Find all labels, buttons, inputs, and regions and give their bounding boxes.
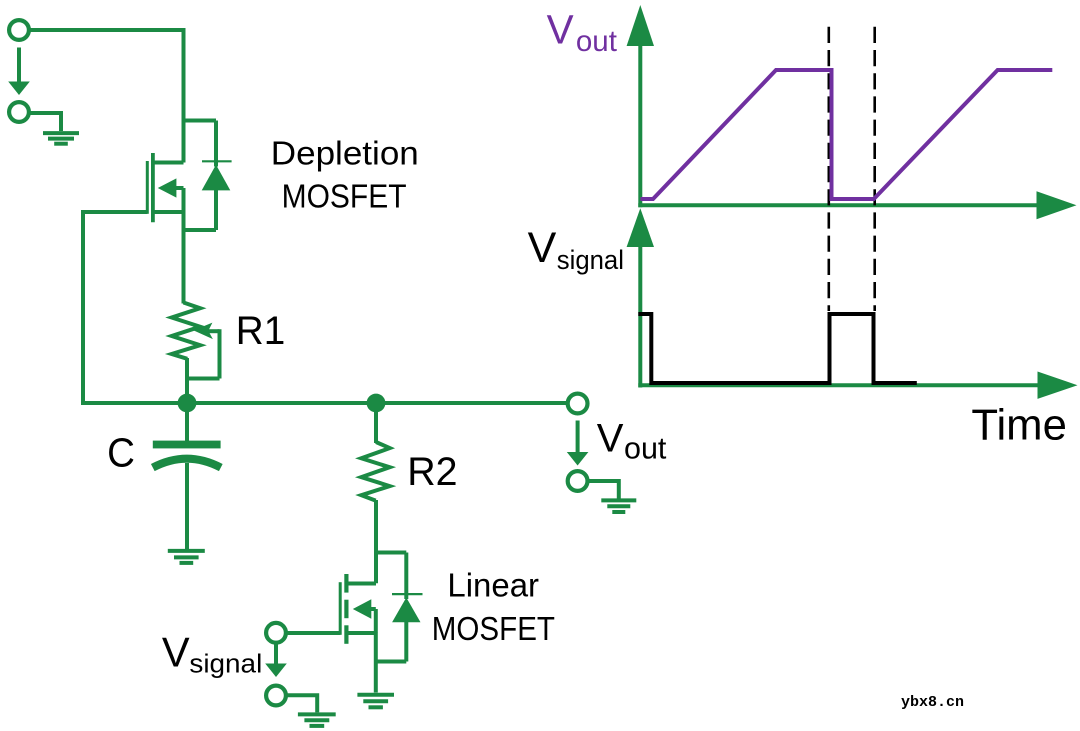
Vsignal lower terminal circle <box>266 686 286 706</box>
label Vsignal (circuit) <box>162 629 262 679</box>
resistor R1 (rheostat) <box>172 303 201 359</box>
chart: Vout horizontal axis <box>638 191 1076 219</box>
svg-text:MOSFET: MOSFET <box>282 177 407 215</box>
ground G4 <box>357 695 394 708</box>
svg-text:out: out <box>624 431 667 465</box>
wire: gate feedback (node A to M1 gate) <box>83 212 147 403</box>
node A junction dot <box>178 394 197 413</box>
wire: R1 bottom to node A <box>185 358 189 403</box>
svg-text:ybx8.cn: ybx8.cn <box>901 694 964 711</box>
svg-text:Linear: Linear <box>447 567 539 604</box>
svg-text:MOSFET: MOSFET <box>432 610 555 647</box>
output terminal circle (lower) <box>568 471 588 491</box>
chart: Vsignal horizontal axis <box>638 372 1077 399</box>
svg-text:V: V <box>528 224 557 272</box>
transistor M1 (depletion MOSFET) <box>147 153 183 230</box>
input lower terminal circle <box>9 102 29 122</box>
label Vout (circuit) <box>597 416 667 465</box>
ground G2 <box>168 551 205 563</box>
ground G5 <box>298 714 336 726</box>
wire: input lower terminal to ground G1 <box>30 113 62 131</box>
wire: capacitor C to ground G2 <box>185 463 189 550</box>
body diode D1 of M1 <box>184 121 232 231</box>
ground G1 <box>43 133 79 144</box>
ground G3 <box>601 500 636 512</box>
node B junction dot <box>367 394 386 413</box>
Vsignal waveform (black pulses) <box>638 314 917 383</box>
wire: Vsignal terminal to M2 gate <box>286 631 340 635</box>
svg-text:R1: R1 <box>236 308 286 353</box>
label Vout (chart, purple) <box>547 7 617 59</box>
chart: Vout vertical axis <box>627 5 654 207</box>
dashed timing line t2 <box>873 27 876 311</box>
capacitor C top plate <box>153 441 221 449</box>
input polarity arrow <box>8 48 30 96</box>
Vsignal polarity arrow <box>265 644 287 677</box>
label Linear MOSFET <box>432 567 555 648</box>
svg-text:V: V <box>547 7 574 53</box>
body diode D2 of M2 <box>376 553 423 662</box>
wire: node A horizontal rail <box>81 401 567 405</box>
wire: node A to capacitor C <box>185 403 189 441</box>
svg-text:V: V <box>597 416 624 460</box>
svg-text:signal: signal <box>189 649 262 678</box>
wire: M1 source to R1 <box>182 230 186 304</box>
label Depletion MOSFET <box>271 136 419 215</box>
output polarity arrow <box>567 421 589 466</box>
resistor R2 <box>361 442 389 501</box>
svg-text:Time: Time <box>971 402 1067 450</box>
svg-text:out: out <box>576 25 617 58</box>
wire: Vout terminal to ground G3 <box>588 481 619 499</box>
svg-text:C: C <box>107 431 135 476</box>
wire: M2 source to ground G4 <box>374 633 378 693</box>
wire: drain rail vertical <box>182 28 186 163</box>
output terminal circle (upper) <box>568 394 588 414</box>
dashed timing line t1 <box>827 27 830 311</box>
svg-text:Depletion: Depletion <box>271 136 419 173</box>
chart: Vsignal vertical axis <box>627 208 654 387</box>
transistor M2 (linear MOSFET) <box>340 574 376 644</box>
svg-text:V: V <box>162 629 190 676</box>
input upper terminal circle <box>9 20 29 40</box>
wire: input terminal to drain rail <box>30 28 184 32</box>
wire: R2 to M2 drain <box>374 500 378 583</box>
Vsignal upper terminal circle <box>266 623 286 643</box>
wire: node B to R2 <box>374 403 378 443</box>
label Vsignal (chart) <box>528 224 624 275</box>
wire: Vsignal lower terminal to ground G5 <box>286 695 317 712</box>
svg-text:R2: R2 <box>407 450 457 494</box>
R1 wiper arrow and strap <box>186 323 220 379</box>
capacitor C bottom curved plate <box>153 459 221 468</box>
Vout waveform (purple ramp) <box>641 70 1053 199</box>
svg-text:signal: signal <box>557 245 624 275</box>
